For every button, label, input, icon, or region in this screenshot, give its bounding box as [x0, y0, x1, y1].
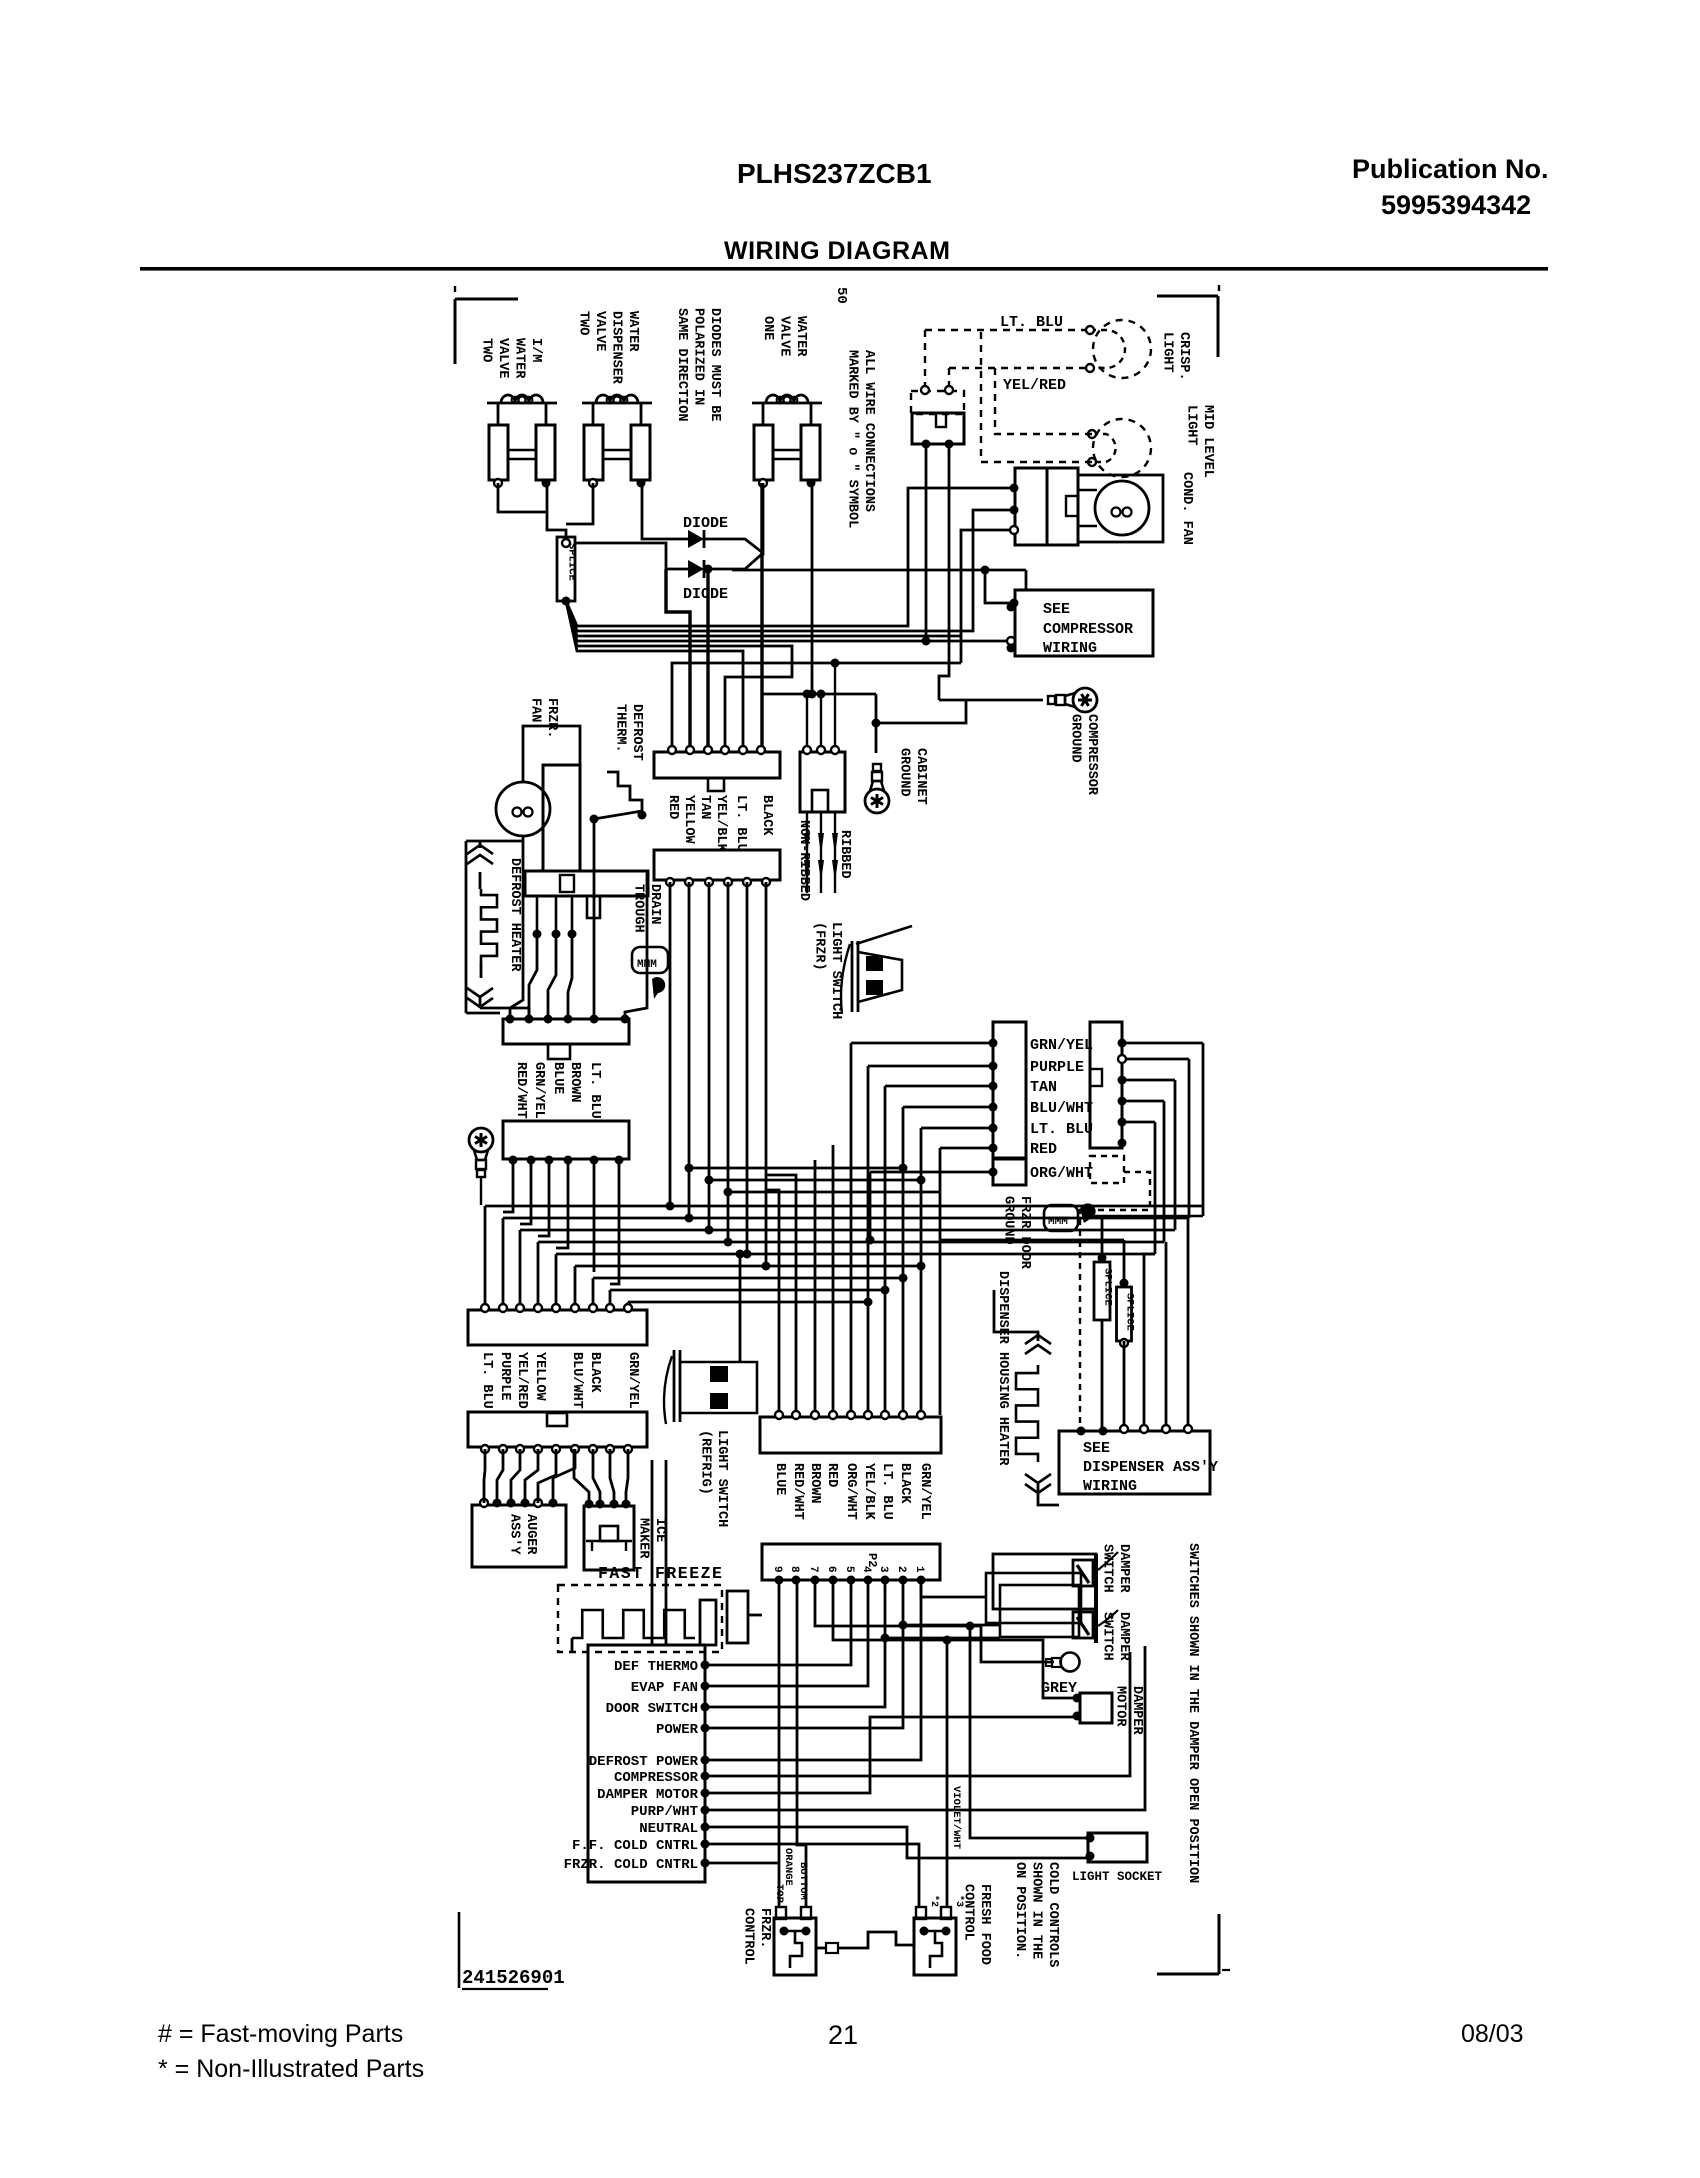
svg-text:FRESH FOOD: FRESH FOOD [977, 1884, 992, 1965]
svg-text:LT. BLU: LT. BLU [1030, 1121, 1093, 1138]
svg-text:PURP/WHT: PURP/WHT [631, 1804, 698, 1820]
svg-text:SPLICE: SPLICE [566, 543, 578, 581]
svg-text:SWITCH: SWITCH [1100, 1544, 1115, 1593]
svg-text:TROUGH: TROUGH [631, 884, 646, 933]
svg-text:DOOR SWITCH: DOOR SWITCH [606, 1701, 698, 1717]
svg-text:MARKED BY " o " SYMBOL: MARKED BY " o " SYMBOL [845, 350, 860, 528]
svg-text:# = Fast-moving Parts: # = Fast-moving Parts [158, 2020, 403, 2048]
svg-text:SPLICE: SPLICE [1124, 1293, 1136, 1331]
svg-text:EVAP FAN: EVAP FAN [631, 1680, 698, 1696]
svg-text:DISPENSER HOUSING HEATER: DISPENSER HOUSING HEATER [995, 1271, 1010, 1466]
svg-text:SAME DIRECTION: SAME DIRECTION [674, 308, 689, 421]
svg-text:WIRING: WIRING [1083, 1478, 1137, 1495]
svg-text:TWO: TWO [576, 311, 591, 335]
svg-text:3: 3 [877, 1566, 889, 1573]
svg-text:CABINET: CABINET [913, 748, 928, 805]
svg-text:RED/WHT: RED/WHT [513, 1062, 528, 1119]
svg-text:RED: RED [824, 1463, 839, 1487]
svg-text:8: 8 [788, 1566, 800, 1573]
svg-text:DAMPER: DAMPER [1116, 1612, 1131, 1662]
svg-text:LIGHT SOCKET: LIGHT SOCKET [1072, 1870, 1163, 1884]
svg-text:MMM: MMM [1048, 1216, 1068, 1228]
svg-text:MAKER: MAKER [636, 1518, 651, 1559]
svg-text:LIGHT: LIGHT [1184, 405, 1199, 446]
svg-text:CRISP.: CRISP. [1176, 332, 1191, 381]
svg-text:VALVE: VALVE [592, 311, 607, 352]
svg-text:FRZR DOOR: FRZR DOOR [1017, 1196, 1032, 1270]
svg-text:BOTTOM: BOTTOM [797, 1862, 809, 1900]
svg-text:GRN/YEL: GRN/YEL [625, 1352, 640, 1409]
svg-text:SWITCHES SHOWN IN THE DAMPER O: SWITCHES SHOWN IN THE DAMPER OPEN POSITI… [1185, 1543, 1200, 1883]
svg-text:I/M: I/M [528, 338, 543, 362]
svg-text:WIRING: WIRING [1043, 640, 1097, 657]
svg-text:ALL WIRE CONNECTIONS: ALL WIRE CONNECTIONS [861, 350, 876, 512]
svg-text:MMM: MMM [637, 959, 657, 971]
svg-text:VALVE: VALVE [777, 316, 792, 357]
svg-text:5995394342: 5995394342 [1381, 190, 1531, 220]
svg-text:CONTROL: CONTROL [961, 1884, 976, 1941]
svg-text:*2: *2 [928, 1895, 940, 1907]
svg-text:AUGER: AUGER [523, 1514, 538, 1555]
svg-text:WIRING DIAGRAM: WIRING DIAGRAM [724, 237, 950, 265]
svg-text:PURPLE: PURPLE [1030, 1059, 1084, 1076]
svg-text:ORG/WHT: ORG/WHT [1030, 1165, 1093, 1182]
svg-text:ORANGE: ORANGE [782, 1848, 794, 1886]
svg-text:GRN/YEL: GRN/YEL [1030, 1037, 1093, 1054]
svg-text:DEF THERMO: DEF THERMO [614, 1659, 698, 1675]
svg-text:SEE: SEE [1043, 601, 1070, 618]
svg-text:DRAIN: DRAIN [647, 884, 662, 925]
svg-text:COMPRESSOR: COMPRESSOR [1043, 621, 1133, 638]
svg-text:1: 1 [913, 1566, 925, 1573]
svg-text:FRZR.: FRZR. [544, 698, 559, 739]
svg-text:BLU/WHT: BLU/WHT [1030, 1100, 1093, 1117]
svg-text:LIGHT SWITCH: LIGHT SWITCH [714, 1430, 729, 1527]
svg-text:(REFRIG): (REFRIG) [698, 1430, 713, 1495]
svg-text:DEFROST: DEFROST [629, 704, 644, 761]
svg-text:08/03: 08/03 [1461, 2020, 1524, 2048]
svg-text:ORG/WHT: ORG/WHT [843, 1463, 858, 1520]
svg-text:WATER: WATER [512, 338, 527, 379]
svg-text:241526901: 241526901 [462, 1967, 565, 1989]
svg-text:YELLOW: YELLOW [681, 795, 696, 845]
svg-text:2: 2 [895, 1566, 907, 1573]
svg-text:50: 50 [833, 287, 849, 304]
svg-text:DAMPER: DAMPER [1116, 1544, 1131, 1594]
svg-text:21: 21 [828, 2020, 858, 2050]
svg-text:FRZR.: FRZR. [757, 1908, 772, 1949]
svg-text:BLUE: BLUE [772, 1463, 787, 1495]
svg-text:VIOLET/WHT: VIOLET/WHT [950, 1786, 962, 1849]
svg-text:WATER: WATER [793, 316, 808, 357]
svg-text:YELLOW: YELLOW [532, 1352, 547, 1402]
svg-text:Publication No.: Publication No. [1352, 154, 1549, 184]
svg-text:5: 5 [843, 1566, 855, 1573]
svg-text:DAMPER: DAMPER [1129, 1686, 1144, 1736]
svg-text:DISPENSER ASS'Y: DISPENSER ASS'Y [1083, 1459, 1218, 1476]
svg-text:BLACK: BLACK [759, 795, 774, 836]
svg-text:BROWN: BROWN [807, 1463, 822, 1504]
svg-text:COMPRESSOR: COMPRESSOR [1084, 714, 1099, 796]
svg-text:F.F. COLD CNTRL: F.F. COLD CNTRL [572, 1838, 698, 1854]
svg-text:RED: RED [665, 795, 680, 819]
svg-text:GRN/YEL: GRN/YEL [917, 1463, 932, 1520]
svg-text:(FRZR): (FRZR) [812, 922, 827, 971]
svg-text:YEL/RED: YEL/RED [514, 1352, 529, 1409]
svg-text:NEUTRAL: NEUTRAL [639, 1821, 698, 1837]
svg-text:ONE: ONE [760, 316, 775, 340]
svg-text:FAST FREEZE: FAST FREEZE [598, 1564, 723, 1583]
svg-text:DEFROST POWER: DEFROST POWER [589, 1754, 699, 1770]
svg-text:LT. BLU: LT. BLU [479, 1352, 494, 1409]
svg-text:9: 9 [771, 1566, 783, 1573]
svg-text:POLARIZED IN: POLARIZED IN [691, 308, 706, 405]
svg-text:GROUND: GROUND [1001, 1196, 1016, 1245]
svg-text:TOP: TOP [773, 1884, 785, 1903]
svg-text:SHOWN IN THE: SHOWN IN THE [1029, 1862, 1044, 1959]
svg-text:GREY: GREY [1041, 1680, 1077, 1697]
svg-text:LT. BLU: LT. BLU [587, 1062, 602, 1119]
svg-text:RED/WHT: RED/WHT [790, 1463, 805, 1520]
svg-text:FAN: FAN [528, 698, 543, 722]
svg-text:SPLICE: SPLICE [1102, 1268, 1114, 1306]
svg-text:FRZR. COLD CNTRL: FRZR. COLD CNTRL [564, 1857, 698, 1873]
svg-text:NON-RIBBED: NON-RIBBED [796, 820, 811, 901]
svg-text:MID LEVEL: MID LEVEL [1200, 405, 1215, 478]
svg-text:DAMPER MOTOR: DAMPER MOTOR [597, 1787, 698, 1803]
svg-text:RIBBED: RIBBED [837, 830, 852, 879]
svg-text:POWER: POWER [656, 1722, 699, 1738]
svg-text:BLACK: BLACK [587, 1352, 602, 1393]
svg-text:DIODE: DIODE [683, 586, 728, 603]
svg-text:TWO: TWO [479, 338, 494, 362]
svg-text:CONTROL: CONTROL [741, 1908, 756, 1965]
svg-text:BLACK: BLACK [897, 1463, 912, 1504]
svg-text:LIGHT: LIGHT [1160, 332, 1175, 373]
svg-text:RED: RED [1030, 1141, 1057, 1158]
svg-text:THERM.: THERM. [613, 704, 628, 753]
svg-text:SEE: SEE [1083, 1440, 1110, 1457]
svg-text:GROUND: GROUND [1068, 714, 1083, 763]
svg-text:WATER: WATER [625, 311, 640, 352]
svg-text:* = Non-Illustrated Parts: * = Non-Illustrated Parts [158, 2055, 424, 2083]
svg-text:DEFROST HEATER: DEFROST HEATER [507, 858, 522, 972]
svg-text:LIGHT SWITCH: LIGHT SWITCH [828, 922, 843, 1019]
svg-text:BROWN: BROWN [567, 1062, 582, 1103]
svg-text:ASS'Y: ASS'Y [507, 1514, 522, 1555]
svg-text:BLU/WHT: BLU/WHT [569, 1352, 584, 1409]
svg-text:LT. BLU: LT. BLU [733, 795, 748, 852]
svg-text:4: 4 [860, 1566, 872, 1573]
svg-text:TAN: TAN [1030, 1079, 1057, 1096]
svg-text:DIODE: DIODE [683, 515, 728, 532]
svg-text:TAN: TAN [697, 795, 712, 819]
svg-text:PURPLE: PURPLE [497, 1352, 512, 1401]
svg-text:COND. FAN: COND. FAN [1179, 472, 1194, 545]
svg-text:GRN/YEL: GRN/YEL [531, 1062, 546, 1119]
svg-text:*3: *3 [953, 1895, 965, 1907]
svg-text:LT. BLU: LT. BLU [879, 1463, 894, 1520]
svg-text:BLUE: BLUE [550, 1062, 565, 1094]
svg-text:DIODES MUST BE: DIODES MUST BE [707, 308, 722, 421]
svg-text:YEL/BLK: YEL/BLK [713, 795, 728, 853]
svg-text:YEL/BLK: YEL/BLK [861, 1463, 876, 1521]
svg-text:ON POSITION.: ON POSITION. [1012, 1862, 1027, 1959]
svg-text:6: 6 [825, 1566, 837, 1573]
svg-text:DISPENSER: DISPENSER [609, 311, 624, 385]
svg-text:7: 7 [807, 1566, 819, 1573]
svg-text:COLD CONTROLS: COLD CONTROLS [1045, 1862, 1060, 1967]
svg-text:GROUND: GROUND [897, 748, 912, 797]
svg-text:PLHS237ZCB1: PLHS237ZCB1 [737, 158, 932, 189]
svg-text:YEL/RED: YEL/RED [1003, 377, 1066, 394]
svg-text:COMPRESSOR: COMPRESSOR [614, 1770, 699, 1786]
svg-text:MOTOR: MOTOR [1113, 1686, 1128, 1727]
svg-text:LT. BLU: LT. BLU [1000, 314, 1063, 331]
svg-text:VALVE: VALVE [495, 338, 510, 379]
